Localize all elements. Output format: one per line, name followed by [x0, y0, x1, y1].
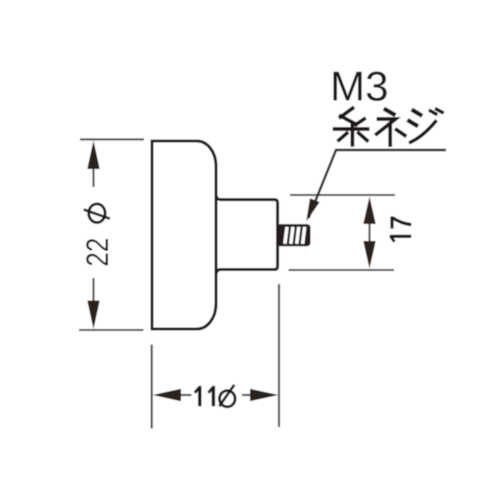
22φ dimension line (lower segment) [92, 278, 94, 305]
22φ top arrowhead [87, 141, 99, 170]
11φ dimension line (right stub) [242, 394, 252, 396]
17 dimension line [368, 220, 370, 246]
22φ dimension text (rotated) [80, 238, 115, 267]
threaded stud M3 (hatched) [278, 226, 309, 245]
17 dimension: top extension line [290, 194, 395, 196]
11φ dimension line (left stub) [179, 394, 192, 396]
22φ dimension line (upper segment) [92, 165, 94, 187]
11φ dimension: right extension line [278, 284, 280, 427]
17 top arrowhead [363, 197, 375, 225]
svg-text:M3: M3 [330, 63, 389, 110]
17 dimension text (rotated) [390, 216, 412, 241]
11φ dimension: left extension line [151, 345, 153, 429]
17 dimension: bottom extension line [289, 269, 395, 271]
leader line from 糸ネジ to stud [309, 150, 447, 218]
label 糸 (kanji ito) drawn strokes [335, 108, 368, 145]
phi symbol of 11φ [219, 385, 235, 407]
leader arrowhead [306, 198, 319, 221]
17 bottom arrowhead [363, 241, 375, 269]
22φ bottom arrowhead [87, 301, 99, 330]
11φ dimension text: digit 1 [195, 386, 214, 406]
22φ dimension: bottom extension line [79, 329, 144, 331]
label ジ (katakana ji with dakuten) drawn strokes [409, 109, 442, 142]
label ネ (katakana ne) drawn strokes [377, 110, 405, 145]
knob neck (cylindrical boss) [216, 195, 278, 273]
11φ right arrowhead [250, 389, 279, 401]
11φ left arrowhead [153, 389, 182, 401]
phi symbol of 22φ (rotated) [84, 204, 110, 223]
svg-text:22: 22 [80, 238, 115, 267]
22φ dimension: top extension line [80, 138, 144, 140]
knob body (dome silhouette, side view) [152, 141, 216, 329]
